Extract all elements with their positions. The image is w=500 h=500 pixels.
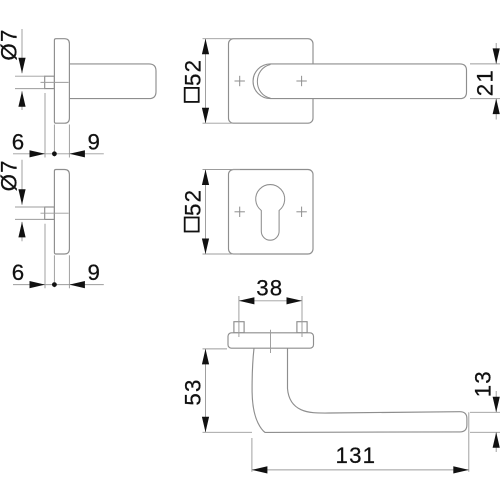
lever end cap inner arc	[257, 65, 270, 99]
13 dimension line lower segment	[495, 432, 497, 452]
21 dimension line upper segment	[495, 43, 497, 64]
sq52 dimension line row2	[205, 170, 207, 255]
svg-text:9: 9	[87, 129, 101, 154]
6 arrow right row2	[30, 281, 46, 288]
131 arrow left	[252, 466, 268, 473]
131 dimension line	[252, 469, 469, 471]
dia7 dimension line lower segment row2	[21, 222, 23, 241]
svg-text:6: 6	[12, 129, 26, 154]
sq52 arrow down row2	[202, 239, 209, 255]
21 dimension line lower segment	[495, 99, 497, 120]
13 extension line bottom	[470, 431, 500, 433]
6/9 extension line rose right face	[68, 125, 70, 158]
rose side view row2	[54, 170, 69, 255]
sq52 arrow up row1	[202, 39, 209, 55]
21 arrow up	[493, 99, 500, 115]
dia7 arrow up	[18, 91, 25, 107]
svg-text:52: 52	[181, 59, 206, 86]
fixing screw right top view	[297, 322, 307, 333]
21 extension line bottom	[470, 98, 500, 100]
38 dimension line	[239, 300, 302, 302]
53 arrow up	[202, 349, 209, 365]
6/9 extension line rose left face	[53, 125, 55, 157]
neck cylinder side view	[66, 64, 156, 99]
rose flange top view	[228, 333, 314, 348]
53 dimension line	[205, 349, 207, 432]
svg-text:13: 13	[471, 370, 496, 397]
9 arrow left row2	[69, 281, 85, 288]
dia7 dimension line upper segment row2	[21, 160, 23, 205]
13 dimension line upper segment	[495, 391, 497, 412]
rose side view	[54, 39, 69, 124]
21 extension line top	[470, 63, 500, 65]
sq52 dimension line row1	[205, 39, 207, 124]
spindle centerline row2	[41, 212, 69, 214]
lever handle front	[253, 64, 466, 99]
flange centerline	[270, 330, 272, 353]
square symbol row2	[185, 218, 199, 232]
spindle centerline	[41, 81, 69, 83]
6/9 extension line pin face row2	[44, 224, 46, 288]
screw cross right row2	[296, 207, 306, 217]
131 extension line left	[251, 438, 253, 472]
6/9 dimension line row2	[13, 284, 104, 286]
chain dimension dot	[52, 151, 57, 156]
svg-text:Ø7: Ø7	[0, 28, 21, 60]
screw cross right row1	[296, 76, 306, 86]
dia7 extension line bottom row2	[15, 218, 45, 220]
dia7 arrow down	[18, 58, 25, 73]
svg-text:Ø7: Ø7	[0, 159, 21, 191]
9 arrow left	[69, 150, 85, 157]
fixing screw left top view	[234, 322, 244, 333]
dia7 extension line top	[15, 75, 45, 77]
dia7 arrow up row2	[18, 222, 25, 238]
square symbol row1	[185, 88, 199, 102]
sq52 extension line top row2	[203, 169, 241, 171]
38 extension line left	[238, 296, 240, 337]
chain dimension dot row2	[52, 282, 57, 287]
13 arrow down	[493, 397, 500, 413]
6 arrow right	[30, 150, 46, 157]
53 arrow down	[202, 417, 209, 433]
svg-text:21: 21	[472, 69, 497, 96]
53 extension line bottom	[203, 431, 253, 433]
sq52 extension line top row1	[203, 38, 241, 40]
dia7 dimension line lower segment	[21, 91, 23, 110]
square rose front	[229, 39, 314, 124]
38 extension line right	[301, 296, 303, 337]
38 arrow right	[287, 297, 303, 304]
53 extension line top	[203, 348, 228, 350]
13 arrow up	[493, 432, 500, 448]
6/9 extension line rose right face row2	[68, 255, 70, 288]
13 extension line top	[470, 411, 500, 413]
screw cross left row2	[235, 207, 245, 217]
handle grip top view outline	[252, 348, 467, 432]
spindle pin side view	[45, 76, 55, 88]
6/9 dimension line	[13, 153, 104, 155]
21 arrow down	[493, 48, 500, 64]
dia7 extension line bottom	[15, 88, 45, 90]
6/9 extension line rose left face row2	[53, 255, 55, 287]
dia7 dimension line upper segment	[21, 29, 23, 73]
sq52 extension line bottom row1	[203, 122, 241, 124]
svg-text:131: 131	[335, 443, 376, 468]
sq52 arrow down row1	[202, 108, 209, 124]
sq52 extension line bottom row2	[203, 253, 241, 255]
spindle pin side view row2	[45, 207, 55, 219]
38 arrow left	[239, 297, 255, 304]
6/9 extension line pin face	[44, 93, 46, 158]
131 extension line right	[468, 412, 470, 472]
131 arrow right	[453, 466, 469, 473]
svg-text:38: 38	[256, 276, 283, 301]
svg-text:6: 6	[12, 260, 26, 285]
svg-text:9: 9	[87, 260, 101, 285]
square key rose front	[229, 170, 314, 255]
dia7 extension line top row2	[15, 206, 45, 208]
screw cross left row1	[235, 76, 245, 86]
svg-text:52: 52	[181, 189, 206, 216]
svg-text:53: 53	[181, 378, 206, 405]
dia7 arrow down row2	[18, 189, 25, 205]
euro profile cylinder hole	[256, 185, 285, 241]
sq52 arrow up row2	[202, 170, 209, 186]
